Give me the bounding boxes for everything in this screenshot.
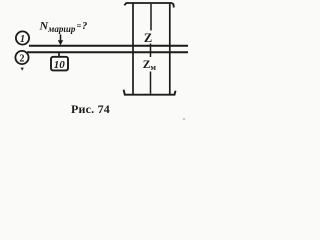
top bar of track section bbox=[124, 3, 174, 8]
node marker 2 (circled 2, wire 2 label) bbox=[15, 51, 28, 65]
bottom bar of track section bbox=[124, 90, 176, 95]
node marker 1 (circled 1, wire 1 label) bbox=[16, 31, 29, 45]
svg-text:10: 10 bbox=[54, 59, 66, 71]
left rail wall bbox=[132, 4, 134, 95]
middle conductor, lower segment bbox=[150, 72, 152, 94]
wire line 2 bbox=[27, 51, 188, 53]
box 10 bbox=[51, 57, 68, 71]
svg-text:1: 1 bbox=[20, 34, 25, 45]
middle conductor, upper segment bbox=[150, 4, 152, 31]
svg-text:Z: Z bbox=[144, 31, 152, 45]
svg-text:Рис. 74: Рис. 74 bbox=[71, 102, 110, 116]
right rail wall bbox=[169, 4, 171, 95]
stray print speck bbox=[183, 118, 185, 120]
svg-text:2: 2 bbox=[20, 54, 25, 65]
arrow into wire line 1 bbox=[58, 35, 63, 46]
tick mark below circle 2 bbox=[21, 68, 24, 71]
wire line 1 bbox=[29, 45, 188, 47]
middle conductor, middle segment crossing wires bbox=[150, 44, 152, 58]
lead from wire line 2 to box 10 bbox=[58, 52, 60, 57]
